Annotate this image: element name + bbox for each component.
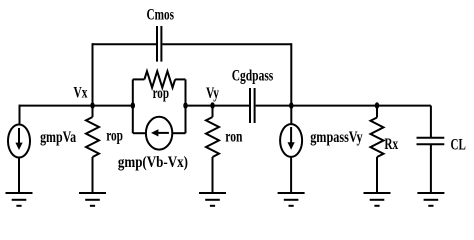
wire left branch upper stem [19, 106, 21, 125]
capacitor CL [417, 138, 445, 145]
current source gmpassVy [280, 124, 302, 157]
node (loop right junction) [183, 102, 187, 109]
wire loop top-right segment [175, 78, 185, 80]
resistor ron (vertical, under Vy) [206, 106, 219, 193]
resistor rop (horizontal, top of loop) [144, 71, 175, 87]
svg-text:rop: rop [153, 85, 169, 102]
capacitor Cmos [157, 26, 161, 62]
svg-text:Vy: Vy [206, 85, 219, 102]
wire main bus right segment [256, 105, 431, 107]
wire main bus middle segment [186, 105, 250, 107]
node (Rx top junction) [375, 102, 379, 109]
svg-text:Cmos: Cmos [147, 7, 175, 24]
arrow of current source gmpassVy [288, 127, 295, 150]
arrow of current source gmpVa [15, 128, 22, 150]
ground (under gmpassVy) [278, 193, 305, 206]
svg-text:Rx: Rx [384, 136, 398, 153]
wire top horizontal left segment (Vx to Cmos) [93, 43, 157, 45]
wire vertical from node Vx up to top wire [92, 43, 94, 105]
node Vx (junction dot) [90, 102, 94, 109]
ground (under CL) [417, 193, 444, 206]
wire main bus left segment [19, 105, 21, 106]
current source gmpVa [8, 125, 30, 158]
ground (under ron) [199, 193, 226, 206]
wire right branch lower stem [290, 157, 292, 193]
wire top horizontal right segment (Cmos to right node) [162, 43, 291, 45]
svg-text:ron: ron [225, 128, 242, 145]
node (loop left junction) [131, 102, 135, 109]
wire loop left vertical [132, 79, 134, 133]
svg-text:gmpVa: gmpVa [40, 129, 76, 146]
svg-text:Cgdpass: Cgdpass [232, 67, 274, 84]
resistor Rx [371, 106, 384, 193]
wire loop bottom-right segment [172, 132, 186, 134]
arrow of current source gmp(Vb-Vx) [151, 129, 169, 136]
svg-text:CL: CL [451, 136, 466, 153]
wire loop right vertical [185, 79, 187, 133]
node Vy (junction dot) [210, 102, 214, 109]
svg-text:gmpassVy: gmpassVy [310, 129, 362, 146]
current source gmp(Vb-Vx) [146, 117, 172, 150]
resistor rop (vertical, under Vx) [86, 106, 99, 193]
ground (left, under gmpVa) [6, 193, 33, 206]
wire CL upper stem (bus corner down to CL) [430, 106, 432, 138]
svg-text:rop: rop [106, 128, 123, 145]
svg-text:Vx: Vx [74, 85, 88, 102]
ground (under rop) [79, 193, 106, 206]
wire loop bottom-left segment [133, 132, 147, 134]
wire vertical from top wire down to right node [290, 43, 292, 124]
node (right junction, Cmos return) [289, 102, 293, 109]
wire CL lower stem [430, 144, 432, 193]
capacitor Cgdpass [250, 88, 255, 123]
wire loop top-left segment [133, 78, 145, 80]
wire left branch lower stem [18, 157, 20, 193]
svg-text:gmp(Vb-Vx): gmp(Vb-Vx) [118, 154, 188, 171]
ground (under Rx) [364, 193, 391, 206]
